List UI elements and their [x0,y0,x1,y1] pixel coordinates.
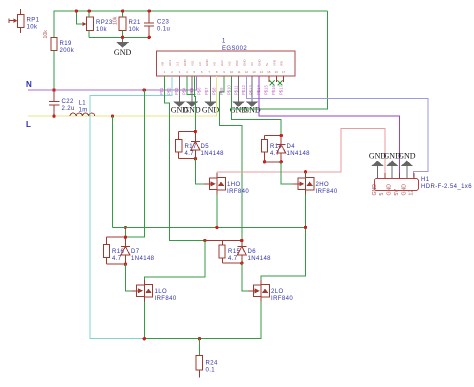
junction dots N and L [52,88,146,118]
svg-text:1m: 1m [79,108,88,114]
svg-text:P$2: P$2 [167,87,172,95]
svg-text:RP1: RP1 [27,18,40,24]
svg-text:13: 13 [252,70,256,74]
svg-text:10k: 10k [113,16,119,25]
svg-text:2LO: 2LO [271,289,284,295]
wire green loop right [232,11,328,109]
wire 2LO source to rail [144,302,261,339]
svg-text:R17: R17 [185,144,197,150]
svg-text:VB: VB [161,62,165,66]
svg-text:5: 5 [379,193,385,196]
svg-text:10k: 10k [129,27,140,33]
svg-text:10: 10 [230,70,234,74]
svg-text:C22: C22 [62,99,74,105]
svg-text:IRF840: IRF840 [271,296,293,302]
wire D6 to gate 2LO [242,263,248,291]
wire D4 to gate 2HO [281,162,292,184]
wire pin5 to R17 D5 [194,76,195,132]
svg-text:1HO: 1HO [227,182,241,188]
svg-text:HDR-F-2.54_1x6: HDR-F-2.54_1x6 [421,184,472,190]
transistor Q4 2LO IRF840 [248,280,269,302]
svg-text:VFB: VFB [272,60,276,66]
svg-text:GND: GND [372,184,378,196]
svg-text:5v: 5v [265,62,269,66]
svg-text:D6: D6 [248,249,257,255]
svg-text:P$12: P$12 [241,85,246,95]
svg-text:N: N [26,80,32,89]
wire cyan pin2 loop [90,76,172,339]
wire net L yellow [28,76,217,116]
wire 2HO drain to pink bus [305,172,307,173]
wire pink drain bus to H1 [217,128,385,173]
no-connect X pin16 [270,81,275,86]
svg-text:4.7: 4.7 [185,151,195,157]
svg-text:GND: GND [243,106,261,115]
wire stub phase to R16 D7 [124,227,126,237]
svg-text:2.2u: 2.2u [62,106,75,112]
svg-text:11: 11 [237,70,240,74]
wire 2HO source down [261,195,306,280]
svg-text:2HO: 2HO [316,182,330,188]
resistor R24 [198,339,200,356]
junction dots top rail [75,9,151,39]
svg-text:IRF840: IRF840 [316,189,338,195]
svg-text:P$13: P$13 [249,85,254,95]
svg-text:R21: R21 [129,20,141,26]
svg-text:D5: D5 [201,144,210,150]
svg-text:H1: H1 [421,177,430,183]
wire L to phase [112,116,114,227]
wire node to 1LO drain [144,241,205,281]
svg-text:D4: D4 [287,144,296,150]
svg-text:EGS002: EGS002 [222,46,247,52]
svg-text:VS1: VS1 [190,60,194,66]
svg-text:1LO: 1LO [155,289,168,295]
no-connect X pin17 [278,81,283,86]
svg-text:200k: 200k [60,48,75,54]
svg-text:0.1u: 0.1u [157,27,170,33]
svg-text:RP23: RP23 [96,20,113,26]
capacitor C22 [49,90,60,116]
svg-text:12: 12 [409,190,415,196]
wire D5 to gate 1HO [195,159,204,184]
svg-text:P$4: P$4 [182,87,187,95]
wire pin10 to R14 D4 [232,76,282,136]
svg-text:IRF840: IRF840 [227,189,249,195]
inductor L1 [70,113,95,116]
svg-text:1: 1 [222,39,226,45]
svg-text:10k: 10k [27,25,38,31]
transistor Q3 1LO IRF840 [131,280,152,302]
svg-text:5V: 5V [394,189,400,196]
svg-text:VI2: VI2 [228,61,232,66]
ground arrows under IC [173,76,258,107]
svg-text:P$10: P$10 [226,85,231,95]
svg-text:P$7: P$7 [204,87,209,95]
svg-text:1N4148: 1N4148 [248,256,272,262]
svg-text:12: 12 [245,70,249,74]
svg-text:14: 14 [260,70,264,74]
transistor Q1 1HO IRF840 [204,173,225,195]
svg-text:GND: GND [257,59,261,67]
svg-text:P$3: P$3 [174,87,179,95]
svg-text:HO1: HO1 [168,60,172,67]
potentiometer RP23 [76,11,84,24]
resistor R16 [103,245,109,258]
svg-text:P$11: P$11 [234,85,239,95]
svg-text:3.3: 3.3 [175,61,179,66]
svg-text:C23: C23 [157,20,169,26]
resistor R19 [51,38,57,51]
ground arrows above H1 [371,161,413,179]
svg-text:GND: GND [401,184,407,196]
wire 1LO source down [143,302,145,339]
svg-text:1N4148: 1N4148 [131,256,155,262]
resistor R14 [262,140,268,153]
svg-text:GND: GND [398,152,416,161]
svg-text:R24: R24 [206,361,218,367]
svg-text:0.1: 0.1 [206,368,216,374]
op-amp module U1 EGS002 box [156,51,295,76]
resistor R21 [119,17,126,31]
svg-text:16: 16 [275,70,279,74]
svg-text:GND: GND [183,106,201,115]
resistor R15 [219,245,225,258]
wire pin9 to R15 D6 [220,76,242,241]
svg-text:L1: L1 [79,101,87,107]
svg-text:IRF840: IRF840 [155,296,177,302]
svg-text:4.7: 4.7 [228,256,238,262]
IC pin stubs and texts [269,76,284,82]
svg-text:10k: 10k [43,30,49,39]
svg-text:UV: UV [250,62,254,66]
connector H1 [374,178,418,190]
potentiometer RP1 [9,9,24,33]
wire D7 to gate 1LO [125,264,131,291]
svg-text:P$17: P$17 [278,85,283,95]
svg-text:P$8: P$8 [211,87,216,95]
svg-text:1N4148: 1N4148 [287,151,311,157]
H1 pin stubs [385,173,414,178]
wire gnd row [89,36,149,38]
svg-text:GND: GND [242,59,246,67]
diode D4 [265,136,286,162]
svg-text:P$16: P$16 [271,85,276,95]
svg-text:IFB: IFB [280,61,284,66]
svg-text:L: L [26,120,31,129]
svg-text:GND: GND [205,59,209,67]
diode D6 [205,241,246,264]
svg-text:P$1: P$1 [159,87,164,95]
svg-text:R19: R19 [60,41,72,47]
svg-text:D7: D7 [131,249,140,255]
wire 1HO source to phase [216,195,218,228]
svg-text:VS: VS [213,62,217,66]
wire R19 to N [53,51,55,91]
diode D5 [179,132,200,159]
wire pin4 jog [187,76,196,95]
wire lavender pin12 to H1 [246,76,428,178]
wire pin1 to lower node [165,76,205,241]
svg-text:1N4148: 1N4148 [201,151,225,157]
svg-text:17: 17 [282,70,286,74]
capacitor C23 [144,11,154,37]
svg-text:P$15: P$15 [264,85,269,95]
diode D7 [106,237,129,264]
transistor Q2 2HO IRF840 [293,173,314,195]
wire magenta pin13 to H1 [259,76,400,173]
svg-text:LO: LO [198,61,202,66]
svg-text:P$6: P$6 [196,87,201,95]
wire top rail [54,11,328,38]
svg-text:GND: GND [183,59,187,67]
svg-text:4.7: 4.7 [270,151,280,157]
svg-text:GND: GND [114,48,132,57]
svg-text:15: 15 [267,70,271,74]
svg-text:GND: GND [387,184,393,196]
wire phase node [113,226,306,228]
svg-text:10k: 10k [96,27,107,33]
svg-text:PA0: PA0 [235,60,239,66]
wire net N [28,76,196,90]
resistor R17 [176,140,182,153]
wire N to R16 D7 [125,90,144,237]
svg-text:4.7: 4.7 [112,256,122,262]
ground under R21 [122,37,124,42]
svg-text:2LO: 2LO [220,60,224,66]
